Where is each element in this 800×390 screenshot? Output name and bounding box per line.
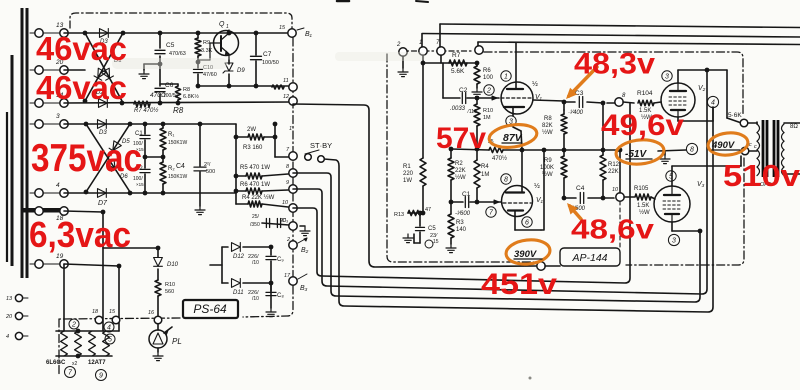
heater bus top	[56, 330, 119, 332]
svg-text:140: 140	[456, 227, 467, 233]
resistor R2 150K 1W	[162, 157, 164, 162]
svg-text:R10: R10	[165, 282, 175, 288]
svg-text:17: 17	[284, 273, 291, 279]
heater bus bottom	[56, 355, 112, 357]
svg-text:5: 5	[108, 337, 112, 344]
svg-text:100/50: 100/50	[262, 60, 279, 66]
zener diode D9	[228, 60, 230, 64]
capacitor C4 .1/600 amp	[564, 197, 576, 199]
rectifier cross wires D5 D6	[86, 124, 130, 192]
svg-text:.0033: .0033	[450, 106, 466, 112]
svg-text:15: 15	[279, 25, 286, 31]
wire -51V row	[564, 149, 620, 151]
svg-text:AP-144: AP-144	[571, 252, 607, 264]
speaker wires right	[784, 122, 800, 124]
orange arrow to node 48.6v	[570, 206, 581, 219]
svg-text:150K1W: 150K1W	[168, 140, 187, 146]
diode D7 HT	[98, 189, 107, 198]
resistor R6 100 amp	[476, 63, 478, 66]
transformer primary pin 13	[15, 294, 22, 301]
svg-text:15: 15	[109, 309, 116, 315]
svg-text:D3: D3	[99, 130, 107, 136]
svg-text:B₂: B₂	[301, 247, 309, 254]
diode D8 on top rail	[100, 29, 109, 38]
terminal 9 PSU	[289, 185, 297, 193]
svg-text:·¹⁄400: ·¹⁄400	[568, 110, 584, 116]
capacitor C5 470/63	[159, 33, 161, 48]
dash-dot cable marker from terminal 13 to B1	[70, 13, 292, 28]
svg-text:C6: C6	[165, 82, 174, 89]
ground at C5 minus	[144, 63, 160, 65]
resistor R8 6.8K	[177, 84, 179, 86]
wire C2 to V1 grid	[467, 97, 499, 99]
wire to 5.6K feed	[726, 70, 728, 118]
svg-text:V₂: V₂	[698, 85, 706, 92]
wire negative rail y=33	[64, 32, 288, 34]
svg-text:R2: R2	[455, 161, 463, 167]
svg-text:1.5K: 1.5K	[637, 203, 649, 209]
transformer secondary terminal 18	[30, 210, 35, 212]
terminal 17 B3	[289, 277, 297, 285]
svg-text:375vac: 375vac	[31, 137, 142, 180]
resistor R3 160 2W	[236, 136, 248, 138]
svg-text:1M: 1M	[483, 115, 491, 121]
svg-text:½W: ½W	[455, 174, 466, 181]
diode D10	[154, 258, 163, 267]
V1a cathode to V1b plate wire	[521, 150, 523, 192]
capacitor C8 226/10	[269, 281, 274, 286]
heater supply wire from terminal 19	[64, 264, 119, 266]
svg-text:20: 20	[279, 218, 287, 224]
svg-text:6: 6	[525, 220, 529, 227]
svg-text:470/63: 470/63	[169, 51, 186, 57]
heater terminal 15 on boundary	[112, 316, 120, 324]
svg-text:3.3K: 3.3K	[201, 48, 213, 54]
V2 plate wire	[677, 70, 679, 83]
tube V3 pentode	[654, 186, 690, 222]
terminal B1	[288, 29, 296, 37]
svg-text:16: 16	[148, 310, 155, 316]
wire D11 D12 feed vertical	[221, 247, 223, 283]
AP-144 module boundary left and bottom dash-dot	[387, 54, 534, 262]
svg-text:ST·BY: ST·BY	[310, 141, 332, 150]
svg-text:C2: C2	[459, 87, 468, 94]
svg-text:D10: D10	[167, 262, 179, 268]
output transformer secondary winding	[782, 124, 785, 133]
wire HT rail row3 y=124	[64, 123, 236, 125]
orange ellipse 490V measurement	[707, 131, 749, 157]
svg-text:1: 1	[504, 74, 508, 81]
svg-text:47/60: 47/60	[203, 72, 217, 78]
svg-text:1: 1	[226, 24, 229, 30]
resistor R8 82K	[563, 110, 565, 114]
capacitor C2 100uF	[144, 157, 146, 168]
wire C1 to V1b grid	[477, 201, 501, 203]
wire terminal 9 nest	[293, 70, 707, 294]
capacitor C5 23/15 amp	[419, 213, 421, 226]
capacitor C10 47/50	[197, 62, 199, 68]
svg-text:9: 9	[286, 180, 289, 186]
node junction 48.3v	[562, 100, 567, 105]
svg-text:½W: ½W	[542, 129, 553, 136]
scan smudge artifacts	[112, 58, 227, 69]
svg-text:3: 3	[56, 113, 60, 120]
svg-text:2: 2	[396, 42, 401, 48]
svg-text:D9: D9	[237, 68, 245, 74]
svg-text:R7: R7	[452, 52, 461, 59]
V1a plate wire up to rail 3	[515, 42, 517, 89]
svg-text:48,3v: 48,3v	[574, 48, 655, 81]
svg-text:2²/: 2²/	[204, 162, 211, 168]
resistor R9 3.3K	[197, 33, 199, 38]
svg-text:12: 12	[283, 94, 289, 100]
svg-text:4: 4	[107, 325, 111, 332]
svg-text:10: 10	[612, 187, 619, 193]
capacitor C9 226/10	[269, 245, 274, 250]
resistor R4 22K halfW	[236, 203, 248, 205]
AP-144 module boundary top dash-dot	[399, 50, 474, 52]
svg-text:R1: R1	[403, 164, 411, 170]
pilot lamp PL	[149, 330, 167, 348]
terminal 12	[289, 97, 297, 105]
terminal 16	[154, 316, 162, 324]
svg-text:150K1W: 150K1W	[168, 174, 187, 180]
ground under R3	[450, 244, 452, 248]
terminal node 390V	[537, 262, 545, 270]
svg-text:C₈: C₈	[277, 293, 284, 299]
svg-text:R6 470 1W: R6 470 1W	[240, 182, 270, 188]
terminal 2 AP input	[399, 48, 407, 56]
svg-text:18: 18	[92, 309, 99, 315]
terminal c upper to output transformer	[740, 119, 748, 127]
resistor R3 140	[450, 202, 452, 214]
svg-text:9: 9	[99, 373, 103, 380]
svg-text:49,6v: 49,6v	[601, 109, 684, 142]
wire top rail 2	[422, 34, 800, 38]
output transformer windings	[757, 124, 760, 133]
svg-text:15: 15	[433, 239, 439, 245]
pin number circles for heaters	[69, 319, 79, 329]
orange ellipse 87V measurement	[488, 122, 539, 150]
wire terminal10 down to AP box	[619, 150, 621, 193]
svg-text:R4: R4	[481, 164, 489, 170]
transformer secondary terminal 4	[30, 192, 35, 194]
orange ellipse 390V measurement	[505, 238, 551, 266]
svg-text:11: 11	[283, 78, 289, 84]
V1b cathode wire loop east up to row 150	[514, 211, 516, 231]
svg-text:6,3vac: 6,3vac	[29, 214, 131, 255]
svg-text:3: 3	[672, 238, 676, 245]
wire terminal 12 to AP-144 node 390V	[293, 104, 536, 267]
svg-text:4: 4	[6, 334, 9, 340]
svg-text:2: 2	[286, 237, 290, 243]
ground under R6	[476, 88, 478, 92]
resistor R104 1.5K	[638, 100, 654, 105]
svg-text:PS-64: PS-64	[193, 302, 227, 316]
svg-text:22K: 22K	[608, 169, 619, 175]
terminal c lower 490V	[741, 147, 749, 155]
capacitor C4 22/500	[199, 124, 201, 166]
V3 cathode wire	[671, 222, 673, 231]
svg-text:C3: C3	[575, 90, 584, 97]
svg-text:R5 470 1W: R5 470 1W	[240, 165, 270, 171]
resistor R7 5.6K amp	[449, 60, 467, 66]
ground under C4	[199, 206, 201, 210]
diode D2b on bias rail	[99, 99, 108, 108]
wire feeding D10	[103, 247, 158, 249]
svg-text:R105: R105	[634, 186, 649, 192]
transformer primary pin 20	[15, 312, 22, 319]
svg-text:C₉: C₉	[277, 257, 284, 263]
svg-text:PL: PL	[172, 337, 182, 346]
vertical from R104 node down	[602, 103, 604, 150]
svg-text:451v: 451v	[481, 268, 557, 301]
terminal 10 AP	[616, 193, 624, 201]
transformer secondary terminal 20	[30, 69, 35, 71]
svg-text:R4 22K ½W: R4 22K ½W	[242, 194, 275, 201]
svg-text:48,6v: 48,6v	[571, 214, 654, 245]
wire top rail 3	[478, 42, 800, 45]
wire top rail 1	[440, 24, 800, 28]
svg-text:R9: R9	[544, 158, 552, 164]
svg-text:100K: 100K	[540, 165, 554, 171]
svg-text:C1: C1	[462, 191, 471, 198]
svg-text:R8: R8	[183, 87, 190, 93]
svg-text:2: 2	[71, 322, 76, 329]
HT bus vertical x=236	[235, 124, 237, 204]
svg-text:13: 13	[56, 22, 64, 29]
svg-text:D11: D11	[233, 290, 244, 296]
svg-text:8: 8	[690, 147, 694, 154]
terminal 8 node AP	[615, 98, 623, 106]
svg-text:Q: Q	[219, 21, 225, 28]
svg-text:D7: D7	[98, 200, 108, 207]
svg-text:25/: 25/	[252, 214, 260, 220]
resistor R6 470 1W	[236, 190, 246, 192]
svg-text:46vac: 46vac	[36, 69, 127, 106]
svg-text:8: 8	[504, 177, 508, 184]
wire terminal 10 nest	[293, 103, 630, 283]
svg-text:R8: R8	[173, 106, 184, 115]
terminal AP top right	[475, 46, 483, 54]
cathode row y=150	[451, 149, 489, 150]
terminal 20 PSU	[289, 222, 297, 230]
svg-text:22K: 22K	[455, 168, 466, 174]
ground near terminal 20	[300, 225, 305, 227]
svg-text:C5: C5	[166, 42, 175, 49]
svg-text:R₂: R₂	[168, 166, 175, 172]
svg-text:13: 13	[6, 296, 13, 302]
terminal 7 PSU	[289, 152, 297, 160]
svg-text:R6: R6	[483, 68, 491, 74]
resistor R9 100K	[563, 150, 565, 156]
svg-text:3: 3	[665, 74, 669, 81]
scan speckle bottom	[529, 377, 532, 380]
V1a cathode lead with pin 3	[512, 107, 514, 116]
V1a wire east to node 48.3	[533, 100, 564, 101]
resistor R5 470 1W	[236, 175, 246, 177]
svg-text:2W: 2W	[247, 127, 256, 133]
capacitor C6 100/50	[159, 64, 161, 86]
terminal 7 AP	[437, 47, 445, 55]
svg-text:100: 100	[483, 75, 494, 81]
svg-text:½: ½	[532, 80, 538, 88]
rectifier cross wires D1 D2	[85, 33, 122, 101]
resistor R13 47	[408, 212, 423, 214]
svg-text:R₁: R₁	[168, 132, 174, 138]
transformer secondary terminal 19	[30, 263, 35, 265]
resistor R7 470ohm	[134, 101, 150, 107]
svg-text:6L6GC: 6L6GC	[46, 360, 66, 366]
diode D3 HT	[98, 120, 107, 129]
grid node circled 2	[484, 85, 494, 95]
svg-text:4: 4	[711, 100, 715, 107]
svg-text:R9: R9	[203, 40, 210, 46]
resistor R2 22K halfW	[450, 149, 452, 158]
heater terminal 14 on boundary	[95, 316, 103, 324]
capacitor C3 .1/400	[564, 101, 575, 103]
heater element 12AT7	[89, 331, 96, 356]
svg-text:12AT7: 12AT7	[88, 360, 106, 366]
svg-text:82K: 82K	[542, 123, 553, 129]
resistor R4 1M	[476, 149, 478, 160]
svg-text:1: 1	[289, 126, 292, 132]
resistor R105 1.5K	[624, 196, 634, 198]
svg-text:D12: D12	[233, 254, 245, 260]
ground under PL	[157, 348, 159, 352]
svg-text:46vac: 46vac	[36, 30, 127, 67]
svg-text:x2: x2	[72, 361, 78, 367]
svg-text:20: 20	[5, 314, 13, 320]
svg-text:R13: R13	[394, 212, 404, 218]
svg-text:2: 2	[486, 88, 491, 95]
svg-text:47: 47	[425, 207, 431, 213]
wire to C2	[440, 55, 442, 63]
svg-text:B₃: B₃	[300, 285, 308, 292]
resistor R12 22K	[602, 150, 604, 155]
terminal 10 PSU	[289, 204, 297, 212]
terminal 1 AP	[419, 47, 427, 55]
svg-text:-¹⁄600: -¹⁄600	[455, 211, 471, 217]
power transformer T1 core	[21, 8, 24, 278]
orange arrow to node 48.3v	[569, 67, 597, 96]
orange ellipse -51V measurement	[615, 138, 665, 166]
svg-text:57v: 57v	[436, 122, 486, 155]
svg-text:510v: 510v	[723, 158, 800, 193]
capacitor C3 25/350 at terminal 20	[262, 223, 289, 225]
svg-text:10: 10	[282, 200, 289, 206]
svg-text:1W: 1W	[403, 178, 412, 184]
capacitor C2 .0033/110	[461, 93, 463, 104]
heater element 6L6GC pair	[61, 331, 68, 356]
svg-text:c: c	[754, 144, 757, 150]
svg-text:R3 160: R3 160	[243, 145, 263, 151]
svg-text:C4: C4	[576, 185, 585, 192]
svg-text:V₃: V₃	[697, 181, 705, 188]
svg-text:1M: 1M	[481, 172, 489, 178]
tube V2 pentode	[661, 83, 695, 117]
wire ST.BY to V2 cathode nest outer	[324, 107, 713, 312]
V3 plate wire to transformer	[671, 166, 673, 186]
wire terminal 8 nest	[293, 173, 700, 302]
transformer secondary terminal 14	[30, 102, 35, 104]
cathode resistor 470 half	[489, 147, 503, 152]
tube V1 upper half triode	[501, 82, 533, 114]
transformer secondary terminal 13	[30, 32, 35, 34]
svg-text:C5: C5	[428, 226, 436, 232]
diode D11	[222, 282, 228, 284]
resistor R1 220 1W	[422, 63, 424, 158]
ground under C9/C8	[270, 308, 272, 312]
svg-text:R8: R8	[544, 116, 552, 122]
svg-text:/10: /10	[252, 260, 259, 266]
svg-text:R7 470½: R7 470½	[134, 107, 158, 114]
svg-text:R12: R12	[608, 162, 620, 168]
svg-text:8Ω: 8Ω	[790, 124, 798, 130]
ground under C5 amp	[407, 234, 409, 238]
tube V1 lower half triode	[502, 186, 533, 217]
svg-text:R104: R104	[637, 90, 653, 97]
svg-text:/350: /350	[250, 222, 260, 228]
terminal 8 PSU	[289, 169, 297, 177]
capacitor C1 100uF	[144, 124, 146, 134]
AP-144 module name box	[560, 248, 620, 266]
svg-text:V₁: V₁	[536, 197, 544, 204]
transformer primary pin 4	[15, 332, 22, 339]
capacitor C7 100/50	[255, 33, 257, 55]
svg-text:470½: 470½	[492, 155, 507, 162]
PS-64 module name box	[183, 300, 238, 318]
heater supply wire from terminal 18	[64, 211, 103, 212]
svg-text:×15: ×15	[136, 182, 144, 187]
V2 cathode to terminal 4	[677, 117, 679, 121]
circled 8 right	[686, 143, 697, 154]
wire rail3 to terminal 7 via x=275	[274, 124, 276, 157]
transformer secondary terminal 3	[30, 123, 35, 125]
svg-text:½W: ½W	[542, 171, 553, 178]
wire HT rail row4 y=193	[64, 192, 236, 194]
svg-text:R10: R10	[483, 108, 493, 114]
svg-text:5.6K: 5.6K	[451, 68, 465, 75]
diode D12	[222, 246, 228, 248]
transformer winding separator thick bar	[22, 208, 62, 213]
resistor R1 150K 1W	[162, 124, 164, 128]
resistor R10 560	[155, 280, 161, 296]
wire bias rail y=103	[64, 102, 290, 103]
ground under terminal 2	[402, 56, 404, 68]
svg-text:500: 500	[206, 169, 215, 175]
svg-text:/10: /10	[252, 296, 259, 302]
wire grid bus y=63	[422, 55, 424, 63]
resistor R10 1M	[476, 98, 478, 104]
svg-text:4: 4	[56, 182, 60, 189]
svg-text:5·6K: 5·6K	[728, 112, 742, 119]
terminal 11	[289, 83, 297, 91]
scan artifact marks top edge	[337, 0, 349, 2]
svg-text:6.8K½: 6.8K½	[183, 93, 199, 100]
svg-text:87V: 87V	[503, 132, 523, 144]
svg-text:B₁: B₁	[305, 31, 313, 38]
wire mid divider	[145, 156, 163, 158]
svg-text:½: ½	[534, 182, 540, 190]
svg-text:C4: C4	[176, 163, 185, 170]
wire bias output rail y=86	[198, 85, 288, 87]
output transformer core	[762, 120, 765, 177]
terminal 2 B2	[289, 241, 297, 249]
ground on -51V row	[664, 151, 666, 155]
PS-64 module boundary dash-dot	[243, 38, 293, 317]
svg-text:C7: C7	[263, 51, 272, 58]
